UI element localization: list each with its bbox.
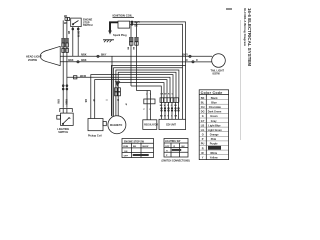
svg-text:CH: CH bbox=[201, 106, 205, 109]
svg-text:Gray: Gray bbox=[211, 120, 217, 123]
svg-text:BK/Y: BK/Y bbox=[183, 55, 189, 57]
page fold line bbox=[240, 20, 242, 140]
CDI stub bullets bbox=[161, 108, 179, 112]
svg-text:BK: BK bbox=[132, 47, 134, 51]
svg-text:DG: DG bbox=[201, 111, 205, 114]
wire: coil output upper run to CDI bbox=[130, 22, 186, 120]
spark plug lead (thick) bbox=[110, 22, 118, 31]
ignition coil box bbox=[118, 21, 130, 28]
svg-text:IGNITION COIL: IGNITION COIL bbox=[113, 14, 133, 18]
svg-text:Spark Plug: Spark Plug bbox=[113, 33, 127, 37]
svg-text:LIGHTING SW: LIGHTING SW bbox=[165, 141, 181, 143]
svg-text:KLF300-A Wiring Diagram: KLF300-A Wiring Diagram bbox=[243, 8, 247, 46]
svg-text:Light Blue: Light Blue bbox=[208, 124, 221, 127]
svg-text:BK: BK bbox=[182, 146, 186, 148]
spark plug label bbox=[113, 33, 127, 37]
L1 magneto drop bbox=[111, 56, 113, 116]
svg-text:Yellow: Yellow bbox=[210, 157, 218, 160]
svg-text:W: W bbox=[164, 105, 166, 107]
L1 connector symbols bbox=[97, 55, 99, 57]
svg-text:ON: ON bbox=[124, 151, 128, 153]
svg-text:BK/W: BK/W bbox=[80, 76, 87, 78]
tail light circle bbox=[212, 54, 226, 68]
regulator box bbox=[143, 120, 157, 130]
svg-text:REGULATOR: REGULATOR bbox=[144, 124, 158, 127]
bus L2 headlight to tail light bbox=[60, 61, 212, 63]
svg-text:BK: BK bbox=[126, 47, 128, 51]
L8 inline connector bbox=[74, 76, 77, 79]
CDI connector bar bbox=[160, 98, 179, 103]
svg-text:GY: GY bbox=[201, 120, 205, 123]
svg-text:R/BK: R/BK bbox=[68, 60, 74, 62]
svg-text:R: R bbox=[202, 147, 204, 150]
bus L9 pickup lead 2 bbox=[95, 80, 167, 119]
color code table bbox=[199, 90, 228, 160]
svg-text:R/BK: R/BK bbox=[81, 55, 87, 57]
svg-text:Green: Green bbox=[210, 115, 218, 118]
engine stop switch label bbox=[83, 19, 93, 28]
svg-text:8/27W: 8/27W bbox=[213, 73, 221, 76]
plug connectors on magneto wires bbox=[115, 88, 118, 92]
wire: lighting column B bbox=[66, 20, 68, 107]
bullet connectors on stop switch leads bbox=[72, 28, 74, 30]
svg-text:Pickup Coil: Pickup Coil bbox=[88, 134, 102, 137]
svg-text:OFF: OFF bbox=[124, 156, 129, 158]
wire labels near pickup bbox=[84, 99, 94, 103]
svg-text:BK: BK bbox=[133, 146, 137, 148]
bus L3 bbox=[111, 66, 185, 117]
svg-text:Pink: Pink bbox=[211, 138, 217, 141]
CDI box bbox=[159, 119, 186, 129]
svg-text:(SWITCH CONNECTIONS): (SWITCH CONNECTIONS) bbox=[162, 161, 190, 163]
svg-text:BK: BK bbox=[201, 97, 205, 100]
bus L10 bbox=[119, 83, 164, 103]
engine stop switch box bbox=[71, 18, 82, 27]
svg-text:G: G bbox=[202, 115, 204, 118]
connector X1 (2-pin, top left) bbox=[65, 18, 67, 21]
svg-text:Orange: Orange bbox=[210, 134, 219, 137]
magneto circle bbox=[108, 116, 126, 134]
bus L11 bbox=[131, 86, 161, 102]
wire: stop switch right lead down to L1 bbox=[77, 27, 79, 57]
regulator mini bus bbox=[136, 90, 150, 92]
svg-text:BK: BK bbox=[67, 31, 69, 35]
svg-text:BK/W: BK/W bbox=[143, 146, 150, 148]
svg-text:SWITCH: SWITCH bbox=[58, 131, 68, 134]
headlight lamp symbol bbox=[40, 46, 60, 65]
regulator connector bar bbox=[144, 99, 155, 104]
svg-text:W: W bbox=[165, 94, 167, 96]
svg-text:R/BK: R/BK bbox=[81, 60, 87, 62]
headlight label bbox=[26, 55, 42, 62]
svg-text:RUN: RUN bbox=[123, 146, 128, 148]
svg-text:Blue: Blue bbox=[211, 101, 217, 104]
bus L8 lighting switch to CDI bbox=[67, 77, 170, 102]
svg-text:SWITCH: SWITCH bbox=[83, 24, 93, 27]
CDI stubs bbox=[161, 102, 163, 119]
bus L5 bbox=[116, 70, 179, 116]
svg-text:O: O bbox=[202, 134, 204, 137]
svg-text:Light Green: Light Green bbox=[208, 129, 223, 132]
svg-text:W: W bbox=[124, 103, 126, 105]
wire: lighting column A bbox=[62, 20, 64, 107]
svg-text:BK: BK bbox=[64, 16, 68, 18]
connector plugs below coil bbox=[129, 37, 138, 41]
svg-text:Black: Black bbox=[211, 97, 218, 100]
bus L1 headlight to tail light bbox=[60, 55, 212, 57]
black connector arrow on magneto wires bbox=[115, 81, 120, 87]
bullet connectors on lighting columns bbox=[62, 85, 64, 87]
coil output bullets bbox=[131, 21, 133, 23]
svg-text:BK: BK bbox=[84, 99, 86, 103]
svg-text:LG: LG bbox=[201, 129, 205, 132]
pickup coil box bbox=[88, 119, 103, 131]
connector plugs on lighting columns bbox=[62, 38, 69, 42]
table B: lighting switch connections bbox=[162, 139, 190, 163]
bus L7 pickup lead 1 bbox=[91, 75, 173, 119]
svg-text:Color Code: Color Code bbox=[201, 91, 223, 95]
svg-text:CDI UNIT: CDI UNIT bbox=[166, 125, 177, 127]
vertical caption: section title bbox=[243, 8, 252, 66]
svg-text:White: White bbox=[210, 152, 217, 155]
svg-text:OFF: OFF bbox=[165, 146, 170, 148]
bus L6 bbox=[118, 72, 176, 116]
svg-text:PU: PU bbox=[201, 143, 205, 146]
svg-text:BK/W: BK/W bbox=[77, 31, 79, 38]
table A: engine stop switch connections bbox=[122, 139, 154, 158]
bus L4 bbox=[114, 68, 183, 116]
svg-text:Chocolate: Chocolate bbox=[209, 106, 222, 109]
svg-text:Dark Green: Dark Green bbox=[208, 111, 222, 114]
svg-text:Purple: Purple bbox=[210, 143, 218, 146]
svg-text:25/25W: 25/25W bbox=[28, 58, 37, 62]
wire: coil output lower run to CDI bbox=[130, 24, 183, 119]
svg-text:R/BK: R/BK bbox=[64, 99, 66, 105]
lighting switch box bbox=[61, 113, 74, 125]
lighting switch label bbox=[57, 128, 69, 134]
svg-text:LB: LB bbox=[201, 124, 205, 127]
svg-text:ENGINE STOP SW: ENGINE STOP SW bbox=[124, 141, 145, 143]
regulator stubs bbox=[146, 104, 148, 120]
spark plug arrowhead bbox=[108, 31, 112, 35]
svg-text:BL: BL bbox=[201, 101, 205, 104]
svg-text:W: W bbox=[164, 116, 166, 118]
svg-text:BK/Y: BK/Y bbox=[101, 55, 107, 57]
wire: stop switch left lead down to L1 bbox=[72, 27, 74, 57]
ignition coil label bbox=[113, 14, 133, 18]
wire: coil tap 2 down bbox=[135, 22, 137, 91]
lighting switch connector bracket bbox=[60, 109, 73, 113]
svg-text:MAGNETO: MAGNETO bbox=[110, 124, 122, 127]
page header dash top right bbox=[226, 8, 232, 10]
wire: coil tap 1 down bbox=[130, 24, 132, 86]
ground under spark plug bbox=[103, 39, 114, 41]
svg-text:BK/Y: BK/Y bbox=[135, 22, 141, 24]
